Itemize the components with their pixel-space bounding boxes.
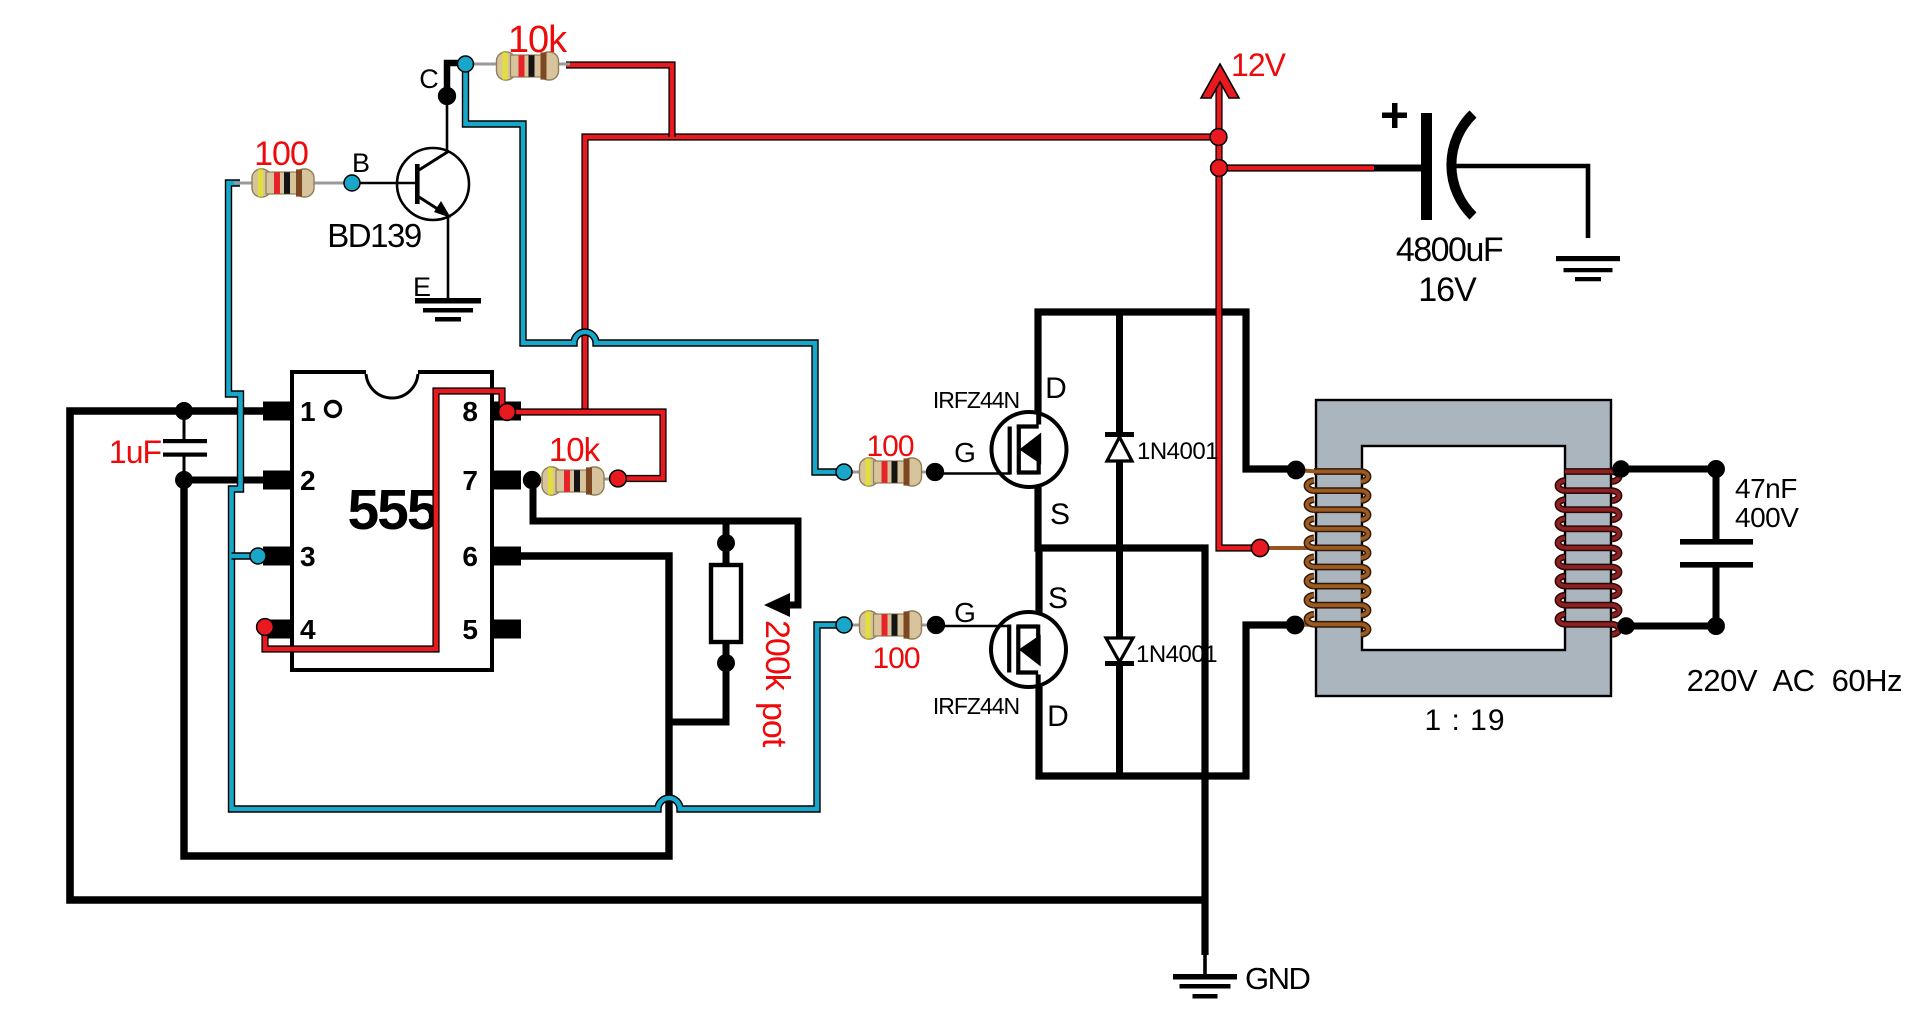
resistor R3 10k (pin7) leads	[536, 478, 545, 481]
node teal top (10k/collector)	[458, 56, 474, 72]
wire pot top terminal	[723, 521, 730, 565]
svg-text:6: 6	[462, 541, 478, 572]
pin 5	[491, 620, 521, 639]
wire teal branch to pin3	[232, 552, 256, 559]
ground symbol 4800uF	[1556, 256, 1620, 261]
pin 2	[263, 471, 293, 490]
svg-text:8: 8	[462, 396, 478, 427]
svg-text:3: 3	[300, 541, 316, 572]
node transformer primary top	[1287, 461, 1304, 478]
transformer core outer	[1316, 400, 1611, 696]
pin 8	[491, 402, 521, 421]
wire pot bottom terminal to pin6 column	[669, 642, 726, 722]
node transformer secondary top	[1613, 461, 1629, 477]
wire red to 4800uF	[1219, 164, 1374, 171]
wire secondary top to 47nF	[1621, 466, 1716, 473]
svg-text:12V: 12V	[1231, 47, 1287, 83]
node teal pin3	[250, 548, 266, 564]
wire pin1 to left rail and bottom ground rail	[70, 411, 1205, 900]
svg-text:4: 4	[300, 614, 316, 645]
wire secondary bottom to 47nF	[1626, 623, 1716, 630]
resistor R2 10k (top) leads	[472, 63, 497, 66]
wire teal BD139 collector to upper gate resistor	[466, 66, 841, 472]
svg-text:2: 2	[300, 465, 316, 496]
wire bridge bottom rail (Q3 drain to transformer bottom)	[1039, 625, 1290, 776]
wire pin7 to pot wiper	[533, 480, 798, 605]
svg-text:1uF: 1uF	[109, 434, 162, 470]
wire bridge top rail (Q2 drain to transformer top)	[1038, 312, 1290, 469]
potentiometer 200k body	[711, 565, 741, 642]
svg-text:E: E	[413, 272, 431, 302]
wire diode chain lower	[1116, 665, 1123, 776]
wire gate lower MOSFET	[936, 625, 1010, 628]
transistor Q2 IRFZ44N upper MOSFET	[992, 412, 1067, 487]
node transformer primary bottom	[1286, 616, 1303, 633]
capacitor C2 plus sign	[1382, 113, 1407, 119]
transformer secondary winding coil	[1558, 472, 1619, 635]
wire Q2 source to mid rail down to GND	[1038, 486, 1205, 955]
svg-text:G: G	[954, 597, 976, 628]
node pot bottom	[718, 655, 734, 671]
ground symbol BD139 emitter	[415, 298, 481, 304]
node teal upper gate resistor	[836, 464, 852, 480]
node red pin4	[257, 619, 274, 636]
svg-text:47nF: 47nF	[1735, 473, 1797, 504]
node red 10k right	[610, 470, 627, 487]
svg-text:220V AC 60Hz: 220V AC 60Hz	[1687, 663, 1902, 698]
wire BD139 emitter lead	[447, 215, 450, 298]
node red 12V top junction	[1210, 129, 1227, 146]
transformer primary winding stub top	[1298, 470, 1316, 472]
svg-text:5: 5	[462, 614, 478, 645]
IC notch	[366, 372, 418, 398]
node teal lower gate resistor	[836, 617, 852, 633]
svg-text:GND: GND	[1245, 961, 1310, 996]
pin 1	[263, 402, 293, 421]
wire red 12V rail vertical and center tap	[1219, 80, 1253, 548]
resistor R1 100 (BD139 base) leads	[234, 182, 253, 185]
svg-text:10k: 10k	[508, 19, 568, 61]
svg-text:1N4001: 1N4001	[1137, 438, 1218, 465]
wire diode chain upper	[1116, 312, 1123, 434]
transformer primary center tap stub	[1262, 546, 1316, 550]
node upper gate resistor right	[927, 464, 944, 481]
svg-text:400V: 400V	[1735, 502, 1799, 533]
node pin1 rail junction	[176, 403, 192, 419]
transformer primary winding stub bottom	[1297, 623, 1316, 628]
svg-text:100: 100	[872, 642, 919, 675]
wire red pin4 to pin8 loop	[265, 391, 502, 649]
node transformer secondary bottom	[1618, 618, 1634, 634]
svg-text:100: 100	[254, 135, 308, 173]
node red pin8	[499, 404, 516, 421]
wire Q3 source lead	[1035, 548, 1042, 613]
resistor R5 100 (lower gate) leads	[846, 624, 860, 627]
svg-text:S: S	[1050, 498, 1070, 531]
svg-text:10k: 10k	[549, 431, 601, 468]
resistor R2 10k body	[497, 52, 559, 80]
wire diode chain middle	[1116, 460, 1123, 639]
pin 7	[491, 471, 521, 490]
wire red supply horizontal to pin8 drop	[585, 137, 1219, 412]
svg-text:100: 100	[866, 430, 913, 463]
svg-text:200k: 200k	[758, 620, 796, 692]
svg-text:1N4001: 1N4001	[1136, 641, 1217, 668]
transformer secondary winding stub bottom	[1612, 625, 1627, 627]
pin1 indicator circle	[326, 402, 341, 417]
svg-text:BD139: BD139	[327, 217, 421, 254]
transistor collector diagonal	[419, 151, 449, 170]
transistor emitter arrowhead	[434, 201, 451, 218]
svg-text:C: C	[419, 64, 439, 94]
svg-text:S: S	[1048, 582, 1068, 615]
node pot top	[718, 535, 734, 551]
svg-text:IRFZ44N: IRFZ44N	[933, 387, 1019, 413]
svg-text:1: 1	[300, 396, 316, 427]
svg-text:4800uF: 4800uF	[1396, 231, 1503, 269]
resistor R5 100 body	[860, 611, 922, 639]
node 47nF top	[1708, 461, 1724, 477]
transformer core window	[1362, 446, 1565, 650]
wire red pin8 to 10k resistor	[507, 412, 663, 479]
capacitor C2 curved plate	[1451, 114, 1473, 216]
node red center tap	[1251, 539, 1268, 556]
transistor emitter diagonal	[419, 197, 447, 215]
wire GND lead thin	[1203, 953, 1207, 975]
wire BD139 base lead	[353, 182, 416, 185]
transistor base bar	[415, 164, 420, 204]
capacitor C2 4800uF straight plate	[1421, 113, 1432, 220]
wire BD139 collector thin	[447, 96, 448, 150]
ground symbol GND bottom	[1173, 974, 1237, 980]
node 47nF bottom	[1708, 618, 1724, 634]
node lower gate resistor right	[928, 617, 945, 634]
pot wiper arrowhead	[764, 593, 790, 617]
node red 12V cap junction	[1211, 160, 1228, 177]
wire 47nF bottom lead	[1713, 567, 1720, 626]
node collector C junction	[439, 88, 456, 105]
resistor R4 100 body	[860, 458, 922, 486]
svg-text:G: G	[954, 437, 976, 468]
wire teal pin3 net: left column down and across to lower gate resistor	[229, 183, 841, 809]
svg-text:16V: 16V	[1418, 271, 1477, 309]
transformer primary winding coil	[1307, 472, 1368, 635]
transformer secondary winding stub top	[1612, 470, 1623, 472]
wire 47nF top lead	[1713, 469, 1720, 541]
wire BD139 collector stub	[447, 63, 459, 96]
pin 6	[491, 547, 521, 566]
svg-text:7: 7	[462, 465, 478, 496]
svg-text:D: D	[1045, 372, 1067, 405]
pin 4	[263, 620, 293, 639]
transistor Q1 BD139 circle	[397, 148, 469, 220]
capacitor C1 1uF plates	[163, 439, 207, 443]
node teal base B	[344, 175, 360, 191]
diode D1 1N4001 upper	[1107, 437, 1132, 461]
pin 3	[263, 547, 293, 566]
svg-text:1 : 19: 1 : 19	[1424, 704, 1505, 737]
svg-text:IRFZ44N: IRFZ44N	[933, 693, 1019, 719]
node pin2 rail junction	[176, 472, 192, 488]
diode D2 1N4001 lower	[1106, 638, 1133, 662]
12V supply arrow	[1201, 64, 1239, 98]
capacitor C3 47nF plates	[1680, 539, 1753, 545]
op-amp/timer IC 555 body	[292, 372, 492, 670]
wire 1uF bottom lead	[183, 456, 186, 480]
transistor Q3 IRFZ44N lower MOSFET	[991, 612, 1066, 687]
wire pin2 net: pin2, down left column, bottom link, up to pin6	[184, 477, 264, 484]
resistor R4 100 (upper gate) leads	[846, 471, 860, 474]
wire gate upper MOSFET	[935, 472, 1010, 475]
svg-text:B: B	[352, 148, 370, 178]
svg-text:D: D	[1047, 700, 1069, 733]
svg-text:555: 555	[347, 478, 437, 542]
wire 4800uF positive lead black part	[1372, 165, 1421, 172]
resistor R3 10k body	[542, 467, 604, 495]
wire red from 10k top resistor	[566, 65, 672, 137]
wire 1uF top lead	[183, 411, 186, 440]
node pin7 junction	[524, 472, 541, 489]
wire 4800uF negative lead to ground	[1455, 166, 1588, 238]
svg-text:pot: pot	[755, 702, 793, 748]
resistor R1 100 body	[252, 169, 314, 197]
